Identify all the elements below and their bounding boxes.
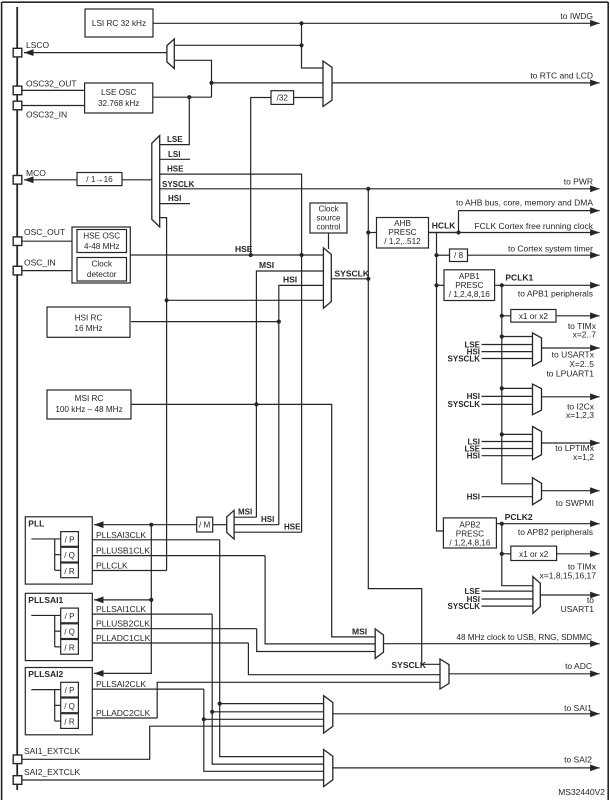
svg-text:SYSCLK: SYSCLK [448, 354, 481, 363]
svg-text:to PWR: to PWR [564, 176, 593, 186]
svg-text:control: control [316, 223, 340, 232]
svg-text:SYSCLK: SYSCLK [162, 180, 195, 189]
svg-text:MS32440V2: MS32440V2 [558, 787, 605, 797]
svg-text:/ 8: / 8 [454, 251, 464, 260]
svg-text:x1 or x2: x1 or x2 [519, 312, 549, 321]
svg-text:HSE OSC: HSE OSC [83, 232, 120, 241]
svg-text:to SAI2: to SAI2 [564, 754, 592, 764]
svg-text:32.768 kHz: 32.768 kHz [98, 99, 139, 108]
svg-text:16 MHz: 16 MHz [74, 324, 102, 333]
svg-text:PLLUSB2CLK: PLLUSB2CLK [96, 619, 150, 629]
svg-text:HSE: HSE [284, 522, 301, 531]
svg-text:source: source [316, 214, 341, 223]
svg-text:to APB1 peripherals: to APB1 peripherals [518, 288, 593, 298]
svg-text:x1 or x2: x1 or x2 [519, 550, 549, 559]
svg-text:HSI: HSI [168, 194, 181, 203]
svg-text:PLLADC1CLK: PLLADC1CLK [96, 633, 151, 643]
svg-text:Clock: Clock [318, 205, 339, 214]
svg-text:LSI RC 32 kHz: LSI RC 32 kHz [92, 19, 146, 28]
svg-text:PRESC: PRESC [456, 529, 484, 538]
svg-text:to AHB bus, core, memory and D: to AHB bus, core, memory and DMA [456, 198, 593, 208]
svg-text:HSI RC: HSI RC [75, 313, 103, 322]
svg-text:HCLK: HCLK [432, 221, 456, 231]
svg-text:/ 1→16: / 1→16 [86, 175, 113, 184]
svg-text:LSI: LSI [168, 150, 180, 159]
svg-text:APB2: APB2 [459, 520, 480, 529]
svg-text:MSI: MSI [238, 507, 252, 516]
svg-text:APB1: APB1 [459, 272, 480, 281]
svg-text:OSC32_IN: OSC32_IN [26, 110, 67, 120]
svg-text:HSI: HSI [467, 452, 480, 461]
svg-text:to SWPMI: to SWPMI [556, 498, 594, 508]
svg-text:MSI RC: MSI RC [75, 394, 104, 403]
svg-text:PLLSAI2: PLLSAI2 [28, 669, 63, 679]
svg-text:PLLADC2CLK: PLLADC2CLK [96, 708, 151, 718]
svg-text:/ M: / M [199, 521, 211, 530]
svg-text:PCLK1: PCLK1 [505, 272, 533, 282]
svg-text:HSE: HSE [167, 165, 184, 174]
svg-text:MSI: MSI [259, 260, 274, 270]
svg-text:USART1: USART1 [561, 604, 595, 614]
svg-text:x=1,2,3: x=1,2,3 [566, 410, 594, 420]
svg-text:OSC32_OUT: OSC32_OUT [26, 79, 77, 89]
svg-text:4-48 MHz: 4-48 MHz [84, 242, 120, 251]
svg-text:PLL: PLL [28, 519, 44, 529]
svg-text:to APB2 peripherals: to APB2 peripherals [518, 527, 593, 537]
svg-text:x=2..7: x=2..7 [573, 330, 597, 340]
svg-text:PLLSAI3CLK: PLLSAI3CLK [96, 530, 146, 540]
svg-text:/ R: / R [64, 567, 74, 576]
svg-text:SYSCLK: SYSCLK [448, 602, 481, 611]
svg-text:LSCO: LSCO [26, 40, 50, 50]
svg-text:/32: /32 [277, 94, 289, 103]
svg-text:x=1,2: x=1,2 [573, 452, 594, 462]
svg-text:FCLK Cortex free running clock: FCLK Cortex free running clock [474, 221, 593, 231]
svg-text:/ R: / R [64, 718, 74, 727]
svg-text:PLLSAI2CLK: PLLSAI2CLK [96, 679, 146, 689]
svg-text:MCO: MCO [26, 168, 46, 178]
svg-text:/ 1,2,4,8,16: / 1,2,4,8,16 [449, 290, 490, 299]
svg-text:OSC_OUT: OSC_OUT [24, 227, 65, 237]
svg-text:/ 1,2,4,8,16: / 1,2,4,8,16 [449, 538, 490, 547]
svg-text:/ Q: / Q [64, 628, 75, 637]
svg-text:AHB: AHB [394, 219, 411, 228]
svg-text:to IWDG: to IWDG [560, 11, 593, 21]
svg-text:SYSCLK: SYSCLK [448, 400, 481, 409]
svg-text:/ P: / P [65, 535, 75, 544]
svg-text:/ Q: / Q [64, 702, 75, 711]
svg-text:SAI1_EXTCLK: SAI1_EXTCLK [24, 746, 81, 756]
svg-text:100 kHz – 48 MHz: 100 kHz – 48 MHz [55, 405, 122, 414]
svg-text:LSE: LSE [167, 135, 183, 144]
svg-text:PLLSAI1: PLLSAI1 [28, 595, 63, 605]
svg-text:to SAI1: to SAI1 [564, 703, 592, 713]
svg-text:PCLK2: PCLK2 [505, 512, 533, 522]
svg-text:HSE: HSE [235, 244, 253, 254]
svg-text:LSE OSC: LSE OSC [101, 88, 137, 97]
svg-text:to RTC and LCD: to RTC and LCD [530, 70, 593, 80]
svg-text:SAI2_EXTCLK: SAI2_EXTCLK [24, 767, 81, 777]
svg-text:48 MHz clock to USB, RNG, SDMM: 48 MHz clock to USB, RNG, SDMMC [456, 633, 592, 642]
svg-text:detector: detector [87, 270, 117, 279]
svg-text:MSI: MSI [352, 626, 367, 636]
svg-text:PRESC: PRESC [455, 281, 483, 290]
svg-text:PLLSAI1CLK: PLLSAI1CLK [96, 604, 146, 614]
svg-text:/ 1,2,..512: / 1,2,..512 [384, 237, 421, 246]
svg-text:SYSCLK: SYSCLK [335, 268, 370, 278]
svg-text:to Cortex system timer: to Cortex system timer [508, 244, 593, 254]
svg-text:SYSCLK: SYSCLK [392, 660, 427, 670]
svg-text:/ P: / P [65, 686, 75, 695]
svg-text:OSC_IN: OSC_IN [24, 258, 56, 268]
svg-text:PRESC: PRESC [388, 228, 416, 237]
svg-text:Clock: Clock [91, 260, 112, 269]
svg-text:PLLUSB1CLK: PLLUSB1CLK [96, 546, 150, 556]
svg-text:HSI: HSI [283, 275, 297, 285]
svg-text:/ R: / R [64, 643, 74, 652]
svg-text:x=1,8,15,16,17: x=1,8,15,16,17 [540, 571, 597, 581]
svg-text:PLLCLK: PLLCLK [96, 561, 128, 571]
svg-text:/ P: / P [65, 612, 75, 621]
svg-text:HSI: HSI [261, 515, 274, 524]
svg-text:HSI: HSI [467, 493, 480, 502]
svg-text:to ADC: to ADC [565, 661, 592, 671]
svg-text:to LPUART1: to LPUART1 [546, 368, 594, 378]
svg-text:/ Q: / Q [64, 551, 75, 560]
